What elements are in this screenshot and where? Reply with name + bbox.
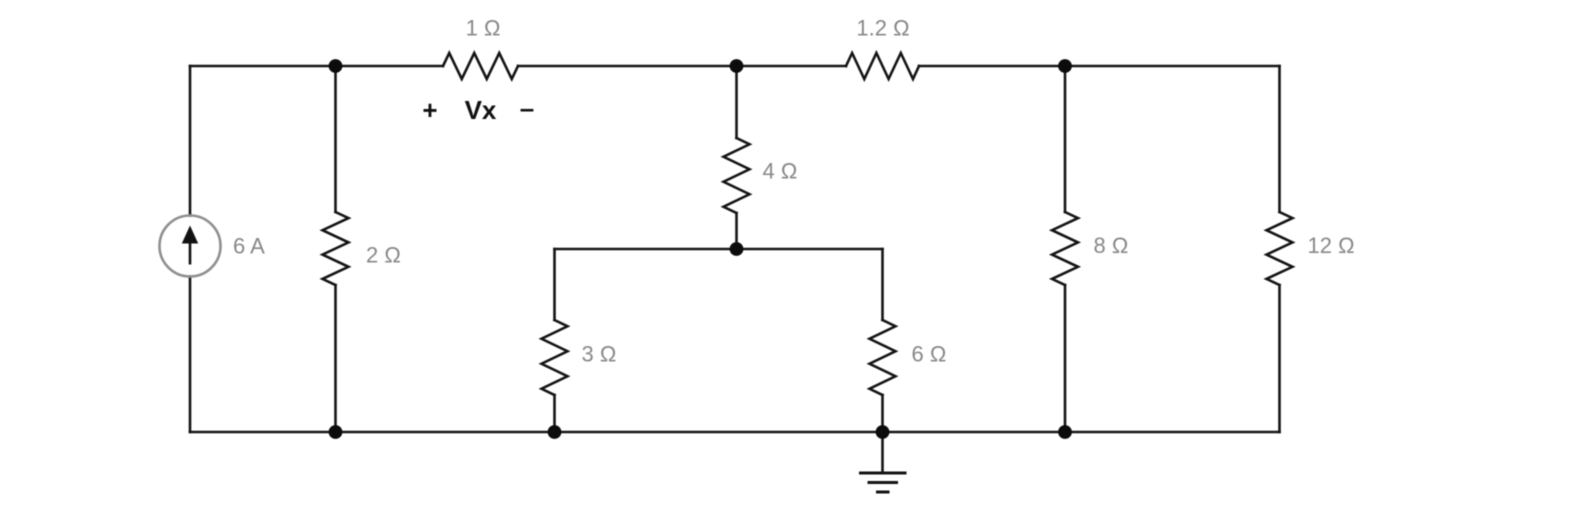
wire ground stub	[881, 432, 884, 472]
node D middle junction	[730, 242, 744, 256]
svg-text:6 A: 6 A	[233, 234, 265, 259]
wire top rail right segment	[919, 65, 1280, 68]
wire 2ohm branch upper	[334, 66, 337, 212]
svg-text:1 Ω: 1 Ω	[466, 16, 501, 41]
ground	[859, 473, 907, 492]
svg-text:4 Ω: 4 Ω	[763, 159, 798, 184]
svg-text:3 Ω: 3 Ω	[582, 342, 617, 367]
svg-text:Vx: Vx	[465, 95, 497, 125]
svg-text:+: +	[422, 95, 437, 125]
resistor R8 12ohm body	[1267, 212, 1293, 285]
wire 8ohm branch lower	[1064, 285, 1067, 432]
wire right rail lower	[1278, 285, 1281, 432]
node E bottom junction below 2ohm	[329, 425, 343, 439]
svg-text:1.2 Ω: 1.2 Ω	[856, 16, 909, 41]
node C top-right junction	[1058, 59, 1072, 73]
wire top rail middle segment	[518, 65, 846, 68]
svg-text:8 Ω: 8 Ω	[1094, 233, 1129, 258]
svg-text:6 Ω: 6 Ω	[912, 342, 947, 367]
resistor R2 1.2ohm body	[846, 53, 919, 79]
wire 4ohm branch lower	[735, 213, 738, 249]
wire 8ohm branch upper	[1064, 66, 1067, 212]
wire left rail upper	[189, 66, 192, 216]
wire 4ohm branch upper	[735, 66, 738, 138]
svg-text:–: –	[520, 93, 534, 123]
wire left rail lower	[189, 277, 192, 433]
node B top-middle junction	[730, 59, 744, 73]
svg-text:2 Ω: 2 Ω	[366, 243, 401, 268]
wire 3ohm branch lower	[553, 395, 556, 432]
resistor R7 8ohm body	[1052, 212, 1078, 285]
wire right rail upper	[1278, 66, 1281, 212]
resistor R1 1ohm body	[443, 53, 518, 79]
node F bottom junction below 3ohm	[548, 425, 562, 439]
node G bottom ground junction	[876, 425, 890, 439]
svg-text:12 Ω: 12 Ω	[1308, 233, 1355, 258]
wire middle rail	[555, 248, 883, 251]
resistor R5 3ohm body	[542, 320, 568, 395]
resistor R6 6ohm body	[870, 320, 896, 395]
node H bottom junction below 8ohm	[1058, 425, 1072, 439]
node A top-left junction	[329, 59, 343, 73]
resistor R4 4ohm body	[724, 138, 750, 213]
wire 6ohm branch upper	[881, 249, 884, 320]
resistor R3 2ohm body	[323, 212, 349, 285]
wire 2ohm branch lower	[334, 285, 337, 432]
current source I1 circle	[160, 216, 221, 277]
current source I1 arrow	[182, 226, 198, 265]
wire top rail left segment	[190, 65, 443, 68]
wire bottom rail	[190, 431, 1280, 434]
wire 3ohm branch upper	[553, 249, 556, 320]
wire 6ohm branch lower	[881, 395, 884, 432]
